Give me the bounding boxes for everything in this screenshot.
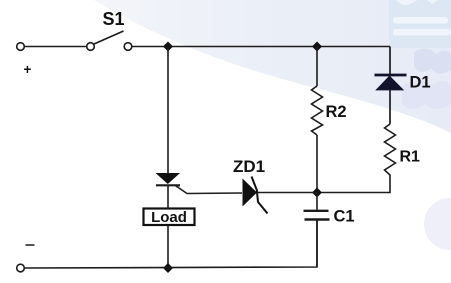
load box <box>144 209 195 227</box>
node junction middle <box>312 188 322 198</box>
bottom rail wire <box>24 220 317 268</box>
terminal + (positive input) <box>17 43 25 51</box>
wire <box>132 46 390 48</box>
terminal - (negative input) <box>17 245 35 272</box>
svg-text:R2: R2 <box>326 103 347 121</box>
wire <box>389 90 391 124</box>
node junction top-left <box>163 42 173 52</box>
svg-text:R1: R1 <box>400 149 421 166</box>
wire <box>24 46 87 48</box>
capacitor C1 <box>304 193 355 267</box>
node junction top-right <box>312 42 322 52</box>
wire <box>167 225 169 268</box>
svg-text:Load: Load <box>151 209 187 226</box>
node junction bottom <box>163 263 173 273</box>
resistor R2 <box>312 47 347 193</box>
svg-text:D1: D1 <box>410 74 431 92</box>
svg-text:ZD1: ZD1 <box>233 157 265 176</box>
wire <box>389 47 391 75</box>
resistor R1 <box>385 124 421 180</box>
zener diode ZD1 <box>233 157 317 214</box>
diode D1 <box>375 74 431 92</box>
svg-text:S1: S1 <box>102 9 124 29</box>
svg-text:+: + <box>24 62 32 77</box>
svg-text:C1: C1 <box>334 208 355 226</box>
wire <box>167 47 169 174</box>
wire <box>317 180 390 193</box>
thyristor (SCR) <box>156 173 243 208</box>
switch S1 <box>87 31 132 50</box>
